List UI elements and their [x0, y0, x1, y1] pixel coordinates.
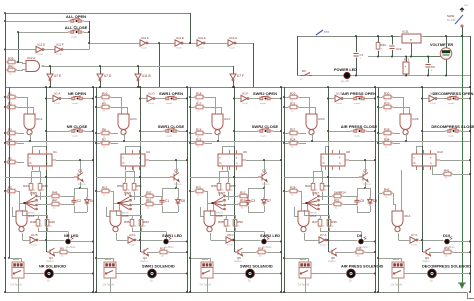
- led NR LED: [66, 239, 71, 244]
- resistor R54: [139, 218, 143, 228]
- wire: drop to U7E: [50, 66, 52, 74]
- wire: right resistors to cap: [343, 196, 357, 198]
- wire: nand2 inputs: [113, 204, 115, 211]
- wire: mid rail junction to transistor base: [421, 239, 423, 241]
- wire: bottom bus corner drop at right: [468, 293, 474, 299]
- wire: inverter out to LED: [137, 240, 163, 242]
- resistor R58: [224, 218, 228, 228]
- inverter U1 B: [30, 237, 38, 243]
- svg-text:U4 C: U4 C: [224, 117, 231, 121]
- svg-text:2 N Torm B: 2 N Torm B: [391, 283, 403, 286]
- switch SW11 top right: [455, 15, 463, 24]
- channel 4 left rail: [284, 87, 286, 292]
- svg-text:U4: U4: [146, 150, 150, 154]
- wire: chain U11C-U11E segment: [148, 43, 175, 45]
- wire: resistor pair feed: [219, 171, 228, 173]
- inverter U7 D vertical: [97, 74, 103, 81]
- svg-text:U2 D: U2 D: [130, 117, 137, 121]
- wire: nand2 bubble down: [116, 233, 118, 240]
- wire: mid rail junction to transistor base: [139, 239, 141, 241]
- junction dots rails: [283, 96, 285, 98]
- wire: connector to solenoid: [311, 273, 347, 275]
- inverter U7 E vertical: [47, 74, 53, 81]
- switch ALL CLOSE: [68, 30, 84, 34]
- wire: connector to solenoid: [404, 273, 428, 275]
- wire: rb bottoms join to LED feed: [132, 228, 134, 232]
- switch SWR2 CLOSE: [257, 129, 273, 133]
- resistor R29: [382, 105, 393, 109]
- wire: chain y43 to U11C: [89, 43, 140, 45]
- svg-text:R28: R28: [384, 128, 390, 132]
- nand gate U5 A vertical: [298, 211, 309, 232]
- svg-text:POWER LED: POWER LED: [334, 68, 357, 72]
- svg-text:sw-pb: sw-pb: [72, 103, 79, 105]
- svg-text:74-04: 74-04: [37, 54, 43, 56]
- ic timer U4: [121, 154, 145, 166]
- wire: connector to solenoid: [116, 273, 148, 275]
- wire: transistor collector up: [264, 160, 266, 174]
- svg-text:D9: D9: [357, 233, 363, 238]
- wire: nand output: [312, 133, 314, 141]
- svg-text:NR SOLENOID: NR SOLENOID: [39, 263, 66, 268]
- svg-text:5TX: 5TX: [324, 30, 329, 34]
- wire: chain U11E-U11A segment: [183, 43, 197, 45]
- svg-text:U11 A: U11 A: [198, 36, 206, 40]
- svg-text:sw-pb: sw-pb: [166, 136, 173, 138]
- and gate U12A: [26, 61, 44, 72]
- wire: nand output: [30, 133, 32, 141]
- rotary switch SW7: [307, 197, 317, 210]
- svg-text:R31: R31: [196, 186, 202, 190]
- svg-text:R25: R25: [334, 199, 340, 203]
- wire: nand2 inputs: [301, 204, 303, 211]
- wire: connector bottom to bus: [305, 278, 307, 292]
- svg-text:74-04: 74-04: [227, 245, 233, 247]
- resistor R59: [233, 218, 237, 228]
- resistor R51: [132, 182, 136, 192]
- transistor Q2: [170, 173, 179, 182]
- svg-text:SWR1 OPEN: SWR1 OPEN: [159, 91, 183, 96]
- wire: nand output: [218, 133, 220, 141]
- wire: nand2 inputs: [19, 204, 21, 211]
- nand gate U3 B vertical: [110, 211, 121, 232]
- capacitor C12: [392, 36, 394, 45]
- channel 3 left rail: [190, 87, 192, 292]
- resistor R9: [100, 105, 111, 109]
- wire: vertical from ALL CLOSE to R39 inputs: [18, 32, 20, 62]
- svg-text:+: +: [405, 64, 407, 68]
- svg-text:U1 D: U1 D: [148, 91, 155, 95]
- svg-text:R50: R50: [117, 184, 123, 188]
- svg-text:2N2222: 2N2222: [78, 184, 86, 186]
- wire: connector bottom to bus: [110, 278, 112, 292]
- wire: left resistor to rotary pivot: [111, 192, 119, 204]
- left resistor R28: [288, 189, 299, 193]
- svg-text:R3: R3: [8, 128, 12, 132]
- wire: R40 to gate input: [17, 70, 27, 71]
- svg-text:74-04: 74-04: [198, 48, 204, 50]
- resistor R56: [217, 182, 221, 192]
- wire: U13A output east: [236, 43, 253, 45]
- svg-text:2N2222: 2N2222: [363, 184, 371, 186]
- ic timer U1: [28, 154, 52, 166]
- svg-text:2N2222: 2N2222: [262, 184, 270, 186]
- wire: resistor pair feed: [125, 171, 134, 173]
- svg-text:SWR1 SOLENOID: SWR1 SOLENOID: [142, 263, 175, 268]
- svg-text:R29: R29: [384, 102, 390, 106]
- ground: power section green drop: [462, 36, 464, 283]
- svg-text:tr: tr: [430, 157, 432, 160]
- nand gate U5 B vertical: [204, 211, 215, 232]
- svg-text:74-04: 74-04: [229, 48, 235, 50]
- inverter U11E: [175, 40, 183, 46]
- switch AIR PRESS OPEN: [351, 96, 367, 100]
- svg-text:R55: R55: [124, 220, 130, 224]
- wire: connector top: [210, 258, 212, 262]
- svg-text:grn 5mm: grn 5mm: [66, 246, 75, 249]
- capacitor C5: [354, 197, 359, 205]
- wire: rb bottoms join to LED feed: [38, 228, 40, 232]
- resistor R3: [6, 131, 17, 135]
- svg-text:R17: R17: [196, 102, 202, 106]
- diode D5: [176, 197, 181, 206]
- resistor R17: [194, 105, 205, 109]
- svg-text:D10: D10: [443, 233, 450, 238]
- nand gate U2 D: [118, 114, 129, 135]
- inverter U11D: [36, 46, 44, 52]
- resistor R5 far left: [6, 160, 17, 164]
- wire: connector to solenoid: [24, 273, 45, 275]
- resistor R50: [123, 182, 127, 192]
- svg-text:U10: U10: [437, 150, 443, 154]
- wire: rb feed rail: [116, 215, 141, 217]
- inverter U13A: [228, 40, 236, 46]
- wire: right resistors to cap: [248, 196, 249, 198]
- resistor R52: [144, 194, 155, 198]
- junction dots bottom: [95, 257, 97, 259]
- svg-text:2 N Torm B: 2 N Torm B: [298, 283, 310, 286]
- svg-text:R16: R16: [196, 128, 202, 132]
- inverter U11C: [140, 40, 148, 46]
- junction dots rails: [377, 96, 379, 98]
- svg-text:R8: R8: [102, 128, 106, 132]
- wire: nand2 bubble down: [398, 233, 400, 240]
- svg-text:R52: R52: [146, 191, 152, 195]
- wire: solenoid to right rail: [157, 273, 188, 275]
- svg-text:R12: R12: [240, 191, 246, 195]
- wire: nand2 bubble down: [304, 233, 306, 240]
- wire: transistor emitter down: [264, 182, 266, 188]
- svg-text:R54: R54: [143, 220, 149, 224]
- svg-text:R38: R38: [444, 247, 450, 251]
- wire: led to right rail: [450, 241, 470, 243]
- svg-text:Q8: Q8: [331, 256, 335, 260]
- wire: transistor emitter down: [365, 182, 367, 188]
- svg-text:R48: R48: [30, 220, 36, 224]
- connector terminal block: [392, 262, 404, 278]
- resistor R10: [100, 95, 111, 99]
- junction dots bottom: [189, 257, 191, 259]
- wire: connector top: [401, 258, 403, 262]
- svg-text:5A 125V: 5A 125V: [447, 19, 456, 22]
- channel 5 right rail: [470, 87, 472, 292]
- inverter U7 A: [319, 237, 327, 243]
- wire: and gate inputs down: [121, 97, 123, 114]
- svg-text:R41: R41: [444, 169, 450, 173]
- resistor R26: [327, 218, 331, 228]
- svg-text:74-04: 74-04: [242, 103, 248, 105]
- svg-text:R57: R57: [230, 184, 236, 188]
- svg-text:U7 D: U7 D: [104, 74, 112, 78]
- resistor R18: [194, 95, 205, 99]
- wire: inverter chain net y49.5: [5, 49, 36, 51]
- svg-text:U12 A: U12 A: [27, 56, 35, 60]
- inverter U7 C: [410, 237, 418, 243]
- resistor R20: [288, 95, 299, 99]
- wire: inverter out to LED: [328, 240, 358, 242]
- svg-text:U12L: U12L: [402, 30, 409, 34]
- svg-text:R11: R11: [160, 247, 165, 251]
- wire: left resistor to rotary pivot: [17, 192, 25, 204]
- wire: ic pins to bus: [32, 146, 34, 150]
- wire: rb bottoms join to LED feed: [320, 228, 322, 232]
- svg-text:U11 D: U11 D: [37, 42, 45, 46]
- junction dots rails: [95, 96, 97, 98]
- svg-text:R43: R43: [380, 43, 386, 47]
- wire: mid rail junction to transistor base: [45, 239, 47, 241]
- svg-text:R56: R56: [211, 184, 217, 188]
- wire: resistor pair feed: [313, 171, 322, 173]
- svg-text:R10: R10: [102, 92, 108, 96]
- channel 4 mid rail: [328, 87, 330, 252]
- svg-text:U11 E: U11 E: [176, 36, 184, 40]
- wire: transistor emitter down: [80, 182, 82, 188]
- wire: chain U11F east then jog up: [63, 49, 89, 51]
- resistor R43: [378, 36, 380, 42]
- svg-text:R51: R51: [136, 184, 142, 188]
- svg-text:U9 A: U9 A: [404, 214, 410, 218]
- svg-text:R23: R23: [324, 184, 330, 188]
- switch SWR1 CLOSE: [163, 129, 179, 133]
- resistor R33: [354, 250, 365, 254]
- svg-text:C3: C3: [251, 199, 255, 203]
- svg-text:R18: R18: [196, 92, 202, 96]
- svg-text:C7: C7: [360, 53, 364, 57]
- resistor R30: [382, 95, 393, 99]
- diode D4: [85, 197, 90, 206]
- resistor R57: [226, 182, 230, 192]
- svg-text:2 N Torm B: 2 N Torm B: [200, 283, 212, 286]
- svg-text:74-04: 74-04: [430, 103, 436, 105]
- solenoid AIR PRESS SOLENOID: [347, 269, 356, 278]
- svg-text:U4 B: U4 B: [412, 117, 418, 121]
- led D9: [359, 239, 364, 244]
- svg-text:AIR PRESS SOLENOID: AIR PRESS SOLENOID: [341, 263, 384, 268]
- wire: transistor base: [96, 177, 170, 179]
- left resistor R5: [6, 189, 17, 193]
- wire: drop to U7F: [233, 66, 235, 74]
- resistor SW8R24: [332, 194, 343, 198]
- wire: drop to OPEN bus at x253: [253, 43, 255, 87]
- inverter U11A: [197, 40, 205, 46]
- wire: solenoid to right rail: [54, 273, 94, 275]
- svg-text:SWR2 SOLENOID: SWR2 SOLENOID: [240, 263, 273, 268]
- wire: switch to power rail: [462, 27, 464, 36]
- svg-text:R46: R46: [52, 191, 58, 195]
- resistor R15: [194, 141, 205, 145]
- connector terminal block: [201, 262, 213, 278]
- wire: transistor collector up: [365, 160, 367, 174]
- wire: connector top: [113, 258, 115, 262]
- svg-text:R42: R42: [384, 188, 390, 192]
- wire: and gate inputs down: [309, 97, 311, 114]
- svg-text:R34: R34: [384, 138, 390, 142]
- svg-text:R7: R7: [102, 138, 106, 142]
- svg-text:R45: R45: [42, 184, 48, 188]
- wire: vertical drop to U11A input: [190, 13, 192, 44]
- switch AIR PRESS CLOSE: [351, 129, 367, 133]
- switch ALL OPEN: [68, 19, 84, 23]
- svg-text:R30: R30: [384, 92, 390, 96]
- ic timer U8: [321, 154, 345, 166]
- resistor R34: [382, 141, 393, 145]
- svg-text:AIR PRESS CLOSE: AIR PRESS CLOSE: [341, 124, 378, 129]
- channel 1 mid rail: [46, 87, 48, 252]
- wire: and gate inputs down: [215, 97, 217, 114]
- wire: connector top: [308, 258, 310, 262]
- transistor Q4: [141, 248, 149, 256]
- switch D6 on LED row: [301, 73, 312, 76]
- svg-text:U7 F: U7 F: [237, 74, 244, 78]
- svg-text:U2 A: U2 A: [36, 117, 42, 121]
- svg-text:2N3907: 2N3907: [328, 261, 336, 263]
- wire: ALL CLOSE right segment: [84, 32, 89, 34]
- wire: R39 to gate input: [17, 63, 27, 64]
- svg-text:U5 A: U5 A: [310, 214, 316, 218]
- resistor R16: [194, 131, 205, 135]
- resistor R38: [442, 250, 453, 254]
- wire: ALL CLOSE net horizontal: [18, 32, 68, 34]
- svg-text:U7 A: U7 A: [320, 233, 326, 237]
- svg-text:SW8R24: SW8R24: [334, 191, 346, 195]
- transistor Q8: [329, 248, 337, 256]
- wire: connector bottom to bus: [398, 278, 400, 292]
- capacitor C2: [71, 197, 76, 205]
- svg-text:sw-pb: sw-pb: [72, 136, 79, 138]
- connector terminal block: [299, 262, 311, 278]
- inverter U7 F vertical: [230, 74, 236, 81]
- channel 1 left rail: [5, 87, 7, 292]
- wire: led to right rail: [169, 241, 187, 243]
- svg-text:DECOMPRESS SOLENOID: DECOMPRESS SOLENOID: [422, 263, 471, 268]
- channel 2 right rail: [187, 87, 189, 292]
- transistor Q6: [258, 173, 267, 182]
- capacitor C6: [428, 57, 430, 64]
- resistor R23: [320, 182, 324, 192]
- svg-text:sw-pb: sw-pb: [354, 103, 361, 105]
- svg-text:2 N Torm B: 2 N Torm B: [11, 283, 23, 286]
- left resistor R31: [194, 189, 205, 193]
- nand gate U2 A: [24, 114, 35, 135]
- wire: nand output: [124, 133, 126, 141]
- svg-text:Q4: Q4: [143, 256, 147, 260]
- switch DECOMPRESS OPEN: [445, 96, 461, 100]
- channel 1 right rail: [93, 87, 95, 292]
- resistor R25: [332, 202, 343, 206]
- wire: full-width OPEN feed bus y87: [5, 87, 470, 89]
- ic timer U6: [218, 154, 242, 166]
- resistor R24: [288, 141, 299, 145]
- rotary switch SW6: [119, 197, 129, 210]
- left resistor R13: [100, 189, 111, 193]
- wire: voltmeter feed: [446, 36, 448, 48]
- junction dots rails: [4, 96, 6, 98]
- wire: connector bottom to bus: [207, 278, 209, 292]
- wire: led to right rail: [71, 241, 93, 243]
- svg-text:grn 5mm: grn 5mm: [262, 246, 271, 249]
- junction dots bottom: [4, 257, 6, 259]
- svg-text:C1: C1: [165, 199, 169, 203]
- diode D7: [262, 197, 267, 206]
- inverter U1 D: [147, 95, 155, 101]
- wire: led to right rail: [364, 241, 375, 243]
- wire: left resistor to rotary pivot: [205, 192, 213, 204]
- svg-text:74-04: 74-04: [336, 103, 342, 105]
- svg-text:tr: tr: [339, 157, 341, 160]
- switch NR CLOSE: [69, 129, 85, 133]
- svg-text:sw-pb: sw-pb: [260, 136, 267, 138]
- nand gate U9 A vertical: [392, 211, 403, 232]
- channel 3 mid rail: [234, 87, 236, 252]
- switch DECOMPRESS CLOSE: [445, 129, 461, 133]
- svg-text:R24: R24: [290, 138, 296, 142]
- wire: and gate inputs down: [27, 97, 29, 114]
- wire: right border vertical rail: [470, 36, 472, 292]
- svg-text:SWR1 CLOSE: SWR1 CLOSE: [158, 124, 185, 129]
- wire: rb feed rail: [210, 215, 235, 217]
- svg-text:DECOMPRESS CLOSE: DECOMPRESS CLOSE: [431, 124, 474, 129]
- svg-text:R26: R26: [331, 220, 337, 224]
- svg-text:U11 F: U11 F: [56, 42, 64, 46]
- resistor R28: [382, 131, 393, 135]
- resistor R1: [6, 95, 17, 99]
- resistor R44: [29, 182, 33, 192]
- resistor R55: [130, 218, 134, 228]
- wire: ALL OPEN net horizontal: [5, 21, 68, 23]
- resistor R41: [442, 172, 453, 176]
- svg-text:74-04: 74-04: [176, 48, 182, 50]
- connector terminal block: [12, 262, 24, 278]
- channel 2 left rail: [96, 87, 98, 292]
- svg-text:74-04: 74-04: [320, 245, 326, 247]
- svg-text:R4: R4: [8, 138, 12, 142]
- svg-text:grn +5V: grn +5V: [341, 80, 350, 83]
- svg-text:R44: R44: [23, 184, 29, 188]
- svg-text:sw-pb: sw-pb: [354, 136, 361, 138]
- wire: ALL OPEN right segment: [84, 21, 89, 23]
- wire: ic bottom to nand: [401, 170, 403, 211]
- transistor Q3: [47, 248, 55, 256]
- inverter U1 C: [429, 95, 437, 101]
- svg-text:74-04: 74-04: [411, 245, 417, 247]
- resistor R2: [6, 105, 17, 109]
- svg-text:sw-pb: sw-pb: [166, 103, 173, 105]
- resistor R6: [58, 250, 69, 254]
- resistor R14: [256, 250, 267, 254]
- transistor Q7: [359, 173, 368, 182]
- diode D8: [368, 197, 373, 206]
- wire: nand2 bubble down: [210, 233, 212, 240]
